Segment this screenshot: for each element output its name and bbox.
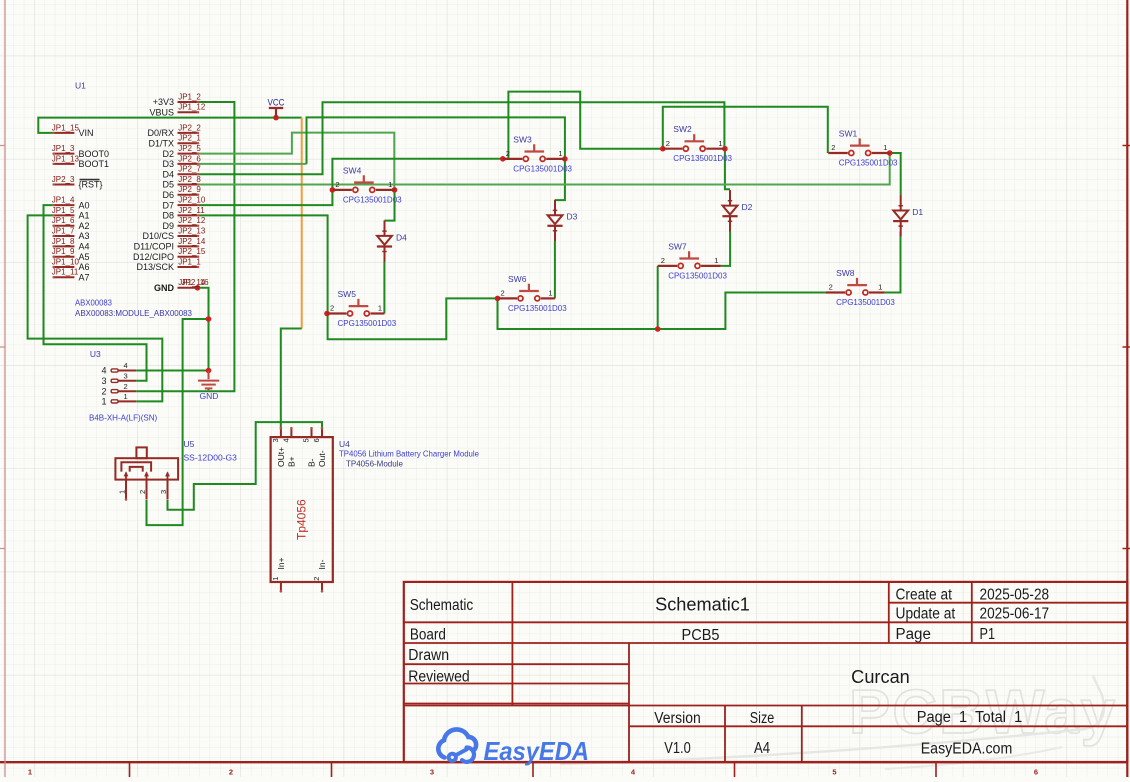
svg-text:JP1_4: JP1_4 (52, 196, 75, 205)
U1 pin A0 (left) (53, 204, 75, 206)
svg-text:JP1_13: JP1_13 (52, 154, 80, 163)
svg-text:1: 1 (28, 768, 32, 777)
pushbutton switch SW2 (CPG135001D03) (663, 124, 733, 163)
wire D3 cathode down to SW6 pin 1 (554, 241, 556, 299)
wire net VCC: down to U4.OUT+ (281, 329, 302, 428)
svg-text:ABX00083:MODULE_ABX00083: ABX00083:MODULE_ABX00083 (75, 308, 192, 318)
svg-text:JP2_8: JP2_8 (178, 175, 201, 184)
wire net A0: U1.A0 to U3 pin 3 (44, 205, 147, 381)
svg-text:CPG135001D03: CPG135001D03 (343, 195, 402, 204)
U1 pin D3 (right) (178, 163, 199, 165)
svg-text:Schematic1: Schematic1 (655, 595, 750, 615)
U1 pin D0/RX (right) (178, 132, 199, 134)
svg-text:JP1_12: JP1_12 (178, 103, 206, 112)
wire net D7: SW2 pin 2 over to SW1 pin 2 (663, 107, 828, 153)
svg-text:VIN: VIN (79, 128, 94, 138)
svg-text:D7: D7 (162, 200, 174, 210)
svg-text:D6: D6 (162, 190, 174, 200)
wire net D5: U1.D5 long line to SW1 pin 1 (199, 153, 890, 185)
svg-text:In+: In+ (276, 557, 286, 569)
U4 pin 1 In+ (bottom) (280, 582, 282, 592)
svg-text:CPG135001D03: CPG135001D03 (508, 304, 567, 313)
svg-text:1: 1 (883, 143, 887, 152)
wire net D7: U1.D7 up to SW3 pin 2, through SW4 pin 2 (199, 159, 503, 205)
svg-text:Out-: Out- (317, 450, 327, 467)
svg-text:B-: B- (307, 458, 317, 467)
svg-text:1: 1 (102, 397, 107, 407)
ground symbol (198, 371, 219, 391)
svg-text:A3: A3 (79, 231, 90, 241)
svg-text:U1: U1 (75, 81, 86, 91)
wire D1 cathode down to SW8 pin 1 (885, 232, 901, 293)
svg-text:B+: B+ (286, 456, 296, 467)
wire net VCC orange segment down (301, 118, 303, 329)
U4 pin 3 OUt+ (top) (280, 428, 282, 438)
pushbutton switch SW4 (CPG135001D03) (332, 165, 402, 204)
svg-text:GND: GND (154, 283, 175, 293)
svg-text:SW1: SW1 (839, 129, 858, 139)
wire net D4: U1.D4 up and across to SW2 pin 1 (199, 102, 725, 174)
EasyEDA logo (438, 729, 476, 761)
svg-text:A5: A5 (79, 252, 90, 262)
junction VCC flag (273, 115, 279, 121)
svg-text:SW6: SW6 (508, 274, 527, 284)
svg-text:2: 2 (335, 180, 339, 189)
svg-text:4: 4 (124, 361, 128, 370)
wire net GND: U1.GND down to ground symbol (198, 288, 209, 371)
svg-text:D5: D5 (162, 180, 174, 190)
svg-text:4: 4 (102, 366, 107, 376)
svg-text:5: 5 (832, 768, 836, 777)
wire net A1: U1.A1 to U3 pin 1 (28, 215, 163, 401)
svg-text:JP1_1: JP1_1 (178, 257, 201, 266)
svg-text:Schematic: Schematic (410, 597, 474, 614)
svg-text:GND: GND (200, 391, 219, 401)
svg-text:D1/TX: D1/TX (148, 138, 174, 148)
U1 pin VBUS (right) (178, 111, 199, 113)
junction SW1 pin 1 (887, 150, 893, 156)
svg-text:+3V3: +3V3 (153, 97, 174, 107)
wire net D3: U1.D3 rightwards (199, 163, 307, 165)
svg-text:JP1_3: JP1_3 (52, 144, 75, 153)
junction SW5 pin 2 (324, 311, 330, 317)
svg-text:2: 2 (506, 149, 510, 158)
svg-text:VCC: VCC (268, 98, 285, 108)
U5 pin 2 (146, 480, 148, 500)
svg-text:Reviewed: Reviewed (408, 668, 469, 685)
svg-text:D9: D9 (162, 221, 174, 231)
svg-text:U3: U3 (90, 349, 101, 359)
svg-text:2025-06-17: 2025-06-17 (980, 606, 1050, 623)
svg-text:A1: A1 (79, 211, 90, 221)
junction GND branch (206, 316, 212, 322)
svg-text:JP2_12: JP2_12 (178, 216, 206, 225)
svg-text:A6: A6 (79, 262, 90, 272)
U4 pin 5 B- (top) (311, 428, 313, 438)
svg-text:D13/SCK: D13/SCK (136, 262, 174, 272)
svg-text:1: 1 (714, 256, 718, 265)
U1 pin A7 (left) (53, 276, 75, 278)
svg-text:JP2_11: JP2_11 (178, 206, 205, 215)
svg-text:JP2_15: JP2_15 (178, 247, 206, 256)
wire net D8: U1.D8 down through SW5 pin 2 to SW6 pin 2 (199, 215, 498, 339)
svg-text:A0: A0 (79, 200, 90, 210)
power flag VCC (269, 108, 283, 118)
svg-text:JP2_3: JP2_3 (52, 175, 75, 184)
svg-text:JP2_16: JP2_16 (182, 278, 210, 287)
svg-text:2: 2 (124, 382, 128, 391)
watermark swoosh (560, 676, 1104, 764)
svg-text:3: 3 (159, 490, 168, 494)
diode D3 (547, 200, 577, 241)
svg-text:6: 6 (1034, 768, 1038, 777)
svg-text:D0/RX: D0/RX (147, 128, 174, 138)
svg-text:JP1_10: JP1_10 (52, 257, 80, 266)
svg-text:3: 3 (271, 438, 280, 442)
svg-text:2: 2 (501, 289, 505, 298)
slide switch U5 (SS-12D00-G3) (115, 439, 237, 501)
U3 pin 3 (111, 379, 118, 382)
svg-text:SS-12D00-G3: SS-12D00-G3 (184, 453, 238, 463)
svg-text:2: 2 (330, 304, 334, 313)
wire net D8: over to SW8 pin 2 (658, 293, 826, 330)
svg-text:EasyEDA: EasyEDA (484, 736, 590, 766)
svg-text:D8: D8 (162, 211, 174, 221)
svg-text:VBUS: VBUS (149, 108, 174, 118)
diode D4 (377, 220, 407, 261)
U1 pin D10/CS (right) (178, 235, 199, 237)
svg-text:1: 1 (878, 283, 882, 292)
svg-text:2: 2 (666, 139, 670, 148)
svg-text:1: 1 (271, 577, 280, 581)
right ruler ticks (1123, 146, 1130, 549)
junction U1 GND pin (195, 285, 201, 291)
pushbutton switch SW5 (CPG135001D03) (327, 289, 397, 328)
U1 pin GND (right bottom) (178, 287, 199, 289)
title block grid lines (404, 582, 1128, 762)
svg-text:EasyEDA.com: EasyEDA.com (921, 741, 1013, 758)
svg-text:JP2_6: JP2_6 (178, 154, 201, 163)
svg-text:D1: D1 (912, 207, 923, 217)
U1 pin A1 (left) (53, 214, 75, 216)
wire net VCC: U1.VIN up and across through VCC flag (38, 118, 301, 133)
svg-text:U5: U5 (184, 439, 195, 449)
svg-text:JP1_7: JP1_7 (52, 226, 75, 235)
U4 pin 6 Out- (top) (321, 428, 323, 438)
svg-text:D2: D2 (162, 149, 174, 159)
svg-text:3: 3 (430, 768, 434, 777)
U1 pin D13/SCK (right) (178, 266, 199, 268)
svg-text:Tp4056: Tp4056 (295, 499, 309, 540)
svg-text:{RST}: {RST} (79, 180, 103, 190)
svg-text:1: 1 (124, 392, 128, 401)
U1 pin D5 (right) (178, 184, 199, 186)
svg-text:Version: Version (654, 710, 701, 727)
U1 pin BOOT1 (left) (53, 163, 75, 165)
svg-text:D4: D4 (162, 169, 174, 179)
svg-text:JP1_5: JP1_5 (52, 206, 75, 215)
svg-text:A2: A2 (79, 221, 90, 231)
U1 RST overline (80, 179, 100, 181)
svg-text:2025-05-28: 2025-05-28 (980, 586, 1050, 603)
svg-text:JP1_8: JP1_8 (52, 237, 75, 246)
svg-text:JP2_5: JP2_5 (178, 144, 201, 153)
svg-text:CPG135001D03: CPG135001D03 (836, 298, 895, 307)
svg-text:1: 1 (548, 289, 552, 298)
svg-text:Board: Board (410, 627, 446, 644)
svg-text:D3: D3 (162, 159, 174, 169)
wire net SW: U5 pin 3 to U4.Out- (168, 422, 323, 510)
svg-text:1: 1 (388, 180, 392, 189)
wire net +3V3: U1.+3V3 to U3 pin 2 (136, 102, 234, 391)
wire net D2: U1.D2 to SW4 pin 1 (199, 133, 394, 190)
junction SW2 pin 2 (660, 146, 666, 152)
U1 pin A2 (left) (53, 225, 75, 227)
U4 pin 2 In- (bottom) (321, 582, 323, 592)
svg-text:CPG135001D03: CPG135001D03 (668, 271, 727, 280)
wire SW2 pin 1 down to D2 anode (725, 149, 730, 190)
svg-text:2: 2 (229, 768, 233, 777)
U1 pin A6 (left) (53, 266, 75, 268)
U1 pin BOOT0 (left) (53, 153, 75, 155)
svg-text:6: 6 (312, 438, 321, 442)
svg-text:SW3: SW3 (513, 134, 532, 144)
wire SW1 pin 1 to D1 anode (890, 153, 901, 195)
U3 pin 4 (111, 369, 118, 372)
svg-text:2: 2 (831, 143, 835, 152)
svg-text:CPG135001D03: CPG135001D03 (513, 164, 572, 173)
svg-text:D12/CIPO: D12/CIPO (133, 252, 174, 262)
bottom ruler ticks (130, 762, 937, 777)
diode D1 (893, 195, 923, 236)
page border left edge (4, 0, 6, 777)
wire D4 cathode down to SW5 pin 1 (383, 261, 385, 313)
pushbutton switch SW8 (CPG135001D03) (826, 268, 896, 307)
svg-text:2: 2 (138, 490, 147, 494)
svg-text:JP2_9: JP2_9 (178, 185, 201, 194)
U1 pin D12/CIPO (right) (178, 256, 199, 258)
wire net GND: branch to U5 pin 2 (147, 319, 209, 525)
svg-text:A4: A4 (79, 242, 90, 252)
title block outer frame (404, 582, 1128, 762)
page border right edge (1126, 0, 1128, 777)
junction SW6 pin 2 (495, 296, 501, 302)
svg-text:JP1_2: JP1_2 (178, 92, 201, 101)
svg-text:D10/CS: D10/CS (142, 231, 174, 241)
svg-text:1: 1 (378, 304, 382, 313)
svg-text:D4: D4 (396, 232, 407, 242)
U1 pin A5 (left) (53, 256, 75, 258)
U1 pin {RST} (left) (53, 184, 75, 186)
svg-text:SW4: SW4 (343, 165, 362, 175)
wire net GND: U3 pin 4 to ground node (136, 370, 208, 372)
svg-text:Size: Size (750, 710, 775, 727)
svg-text:SW5: SW5 (338, 289, 357, 299)
svg-text:CPG135001D03: CPG135001D03 (839, 159, 898, 168)
junction SW3 pin 2 (500, 156, 506, 162)
svg-text:JP2_1: JP2_1 (178, 134, 201, 143)
svg-text:2: 2 (102, 386, 107, 396)
svg-text:CPG135001D03: CPG135001D03 (673, 154, 732, 163)
svg-text:CPG135001D03: CPG135001D03 (338, 319, 397, 328)
svg-text:JP2_13: JP2_13 (178, 226, 206, 235)
svg-text:In-: In- (317, 559, 327, 569)
svg-text:2: 2 (312, 577, 321, 581)
wire net D8: SW6 pin 2 over to SW7 pin 2 (498, 266, 658, 329)
wire SW3 pin 1 down to D3 anode (555, 159, 565, 200)
svg-text:B4B-XH-A(LF)(SN): B4B-XH-A(LF)(SN) (89, 413, 157, 423)
svg-text:2: 2 (829, 283, 833, 292)
U1 pin +3V3 (right) (178, 101, 199, 103)
svg-text:Drawn: Drawn (408, 647, 449, 664)
svg-text:1: 1 (558, 149, 562, 158)
svg-text:D2: D2 (742, 202, 753, 212)
svg-text:JP2_2: JP2_2 (178, 123, 201, 132)
wire SW4 pin 1 down to D4 anode (385, 190, 395, 221)
junction SW7 pin 2 branch (655, 326, 661, 332)
svg-text:PCB5: PCB5 (682, 627, 720, 644)
svg-text:JP2_14: JP2_14 (178, 237, 206, 246)
U5 pin 1 (125, 480, 127, 500)
svg-text:D3: D3 (567, 212, 578, 222)
U1 pin D8 (right) (178, 214, 199, 216)
junction SW3 pin 1 (562, 156, 568, 162)
U1 pin A4 (left) (53, 245, 75, 247)
svg-text:V1.0: V1.0 (664, 740, 691, 757)
module U4 (TP4056) body (271, 427, 480, 593)
junction SW4 pin 1 (392, 187, 398, 193)
U3 pin 2 (111, 390, 118, 393)
ruler numbers (28, 768, 1038, 777)
svg-text:SW2: SW2 (673, 124, 692, 134)
wire net D7: SW3 pin 2 over to SW2 pin 2 (503, 92, 663, 159)
svg-text:D11/COPI: D11/COPI (134, 242, 174, 252)
diode D2 (722, 190, 752, 231)
svg-text:Curcan: Curcan (851, 667, 910, 687)
svg-text:A4: A4 (754, 740, 770, 757)
svg-text:Update at: Update at (896, 606, 956, 623)
U1 pin A3 (left) (53, 235, 75, 237)
svg-text:P1: P1 (980, 626, 996, 643)
svg-text:Create at: Create at (896, 586, 953, 603)
svg-text:1: 1 (118, 490, 127, 494)
svg-text:JP1_9: JP1_9 (52, 247, 75, 256)
left ruler ticks (0, 146, 5, 549)
connector U3 (B4B-XH-A(LF)(SN)) (89, 349, 157, 423)
U1 pin D6 (right) (178, 194, 199, 196)
svg-text:U4: U4 (339, 439, 350, 449)
svg-text:BOOT0: BOOT0 (79, 149, 110, 159)
svg-text:TP4056-Module: TP4056-Module (346, 460, 403, 469)
U1 pin D4 (right) (178, 173, 199, 175)
U4 pin 4 B+ (top) (290, 428, 292, 438)
pushbutton switch SW3 (CPG135001D03) (503, 134, 573, 173)
title block texts (408, 586, 1049, 757)
svg-text:JP1_11: JP1_11 (52, 268, 79, 277)
svg-text:A7: A7 (79, 273, 90, 283)
svg-text:JP2_10: JP2_10 (178, 196, 206, 205)
U1 pin VIN (left) (53, 132, 75, 134)
svg-text:Page: Page (896, 626, 931, 643)
svg-text:JP1_15: JP1_15 (52, 123, 80, 132)
U3 pin 1 (111, 400, 118, 403)
svg-text:JP2_7: JP2_7 (178, 165, 201, 174)
svg-text:TP4056 Lithium Battery Charger: TP4056 Lithium Battery Charger Module (339, 450, 480, 459)
U1 pin D7 (right) (178, 204, 199, 206)
svg-text:SW7: SW7 (668, 241, 687, 251)
pushbutton switch SW6 (CPG135001D03) (498, 274, 568, 313)
U1 pin D2 (right) (178, 153, 199, 155)
svg-text:ABX00083: ABX00083 (75, 298, 112, 308)
junction SW2 pin 1 (722, 146, 728, 152)
svg-text:BOOT1: BOOT1 (79, 159, 110, 169)
svg-text:SW8: SW8 (836, 268, 855, 278)
junction SW4 pin 2 (330, 187, 336, 193)
svg-text:1: 1 (718, 139, 722, 148)
pushbutton switch SW7 (CPG135001D03) (658, 241, 728, 280)
wire D2 cathode down to SW7 pin 1 (721, 231, 730, 266)
svg-text:5: 5 (302, 438, 311, 442)
svg-text:OUt+: OUt+ (276, 447, 286, 467)
U1 pin D11/COPI (right) (178, 245, 199, 247)
svg-text:JP1_6: JP1_6 (52, 216, 75, 225)
wire net D3: up and across to SW3 pin 1 (307, 117, 565, 163)
svg-text:2: 2 (661, 256, 665, 265)
pushbutton switch SW1 (CPG135001D03) (828, 129, 898, 168)
U1 pin D1/TX (right) (178, 142, 199, 144)
svg-text:4: 4 (282, 438, 291, 442)
U1 pin D9 (right) (178, 225, 199, 227)
svg-text:3: 3 (124, 371, 128, 380)
junction ground node (206, 368, 212, 374)
svg-text:3: 3 (102, 376, 107, 386)
page border bottom ruler line (0, 761, 1127, 763)
U5 pin 3 (167, 480, 169, 500)
svg-text:Page 1 Total 1: Page 1 Total 1 (917, 709, 1023, 726)
